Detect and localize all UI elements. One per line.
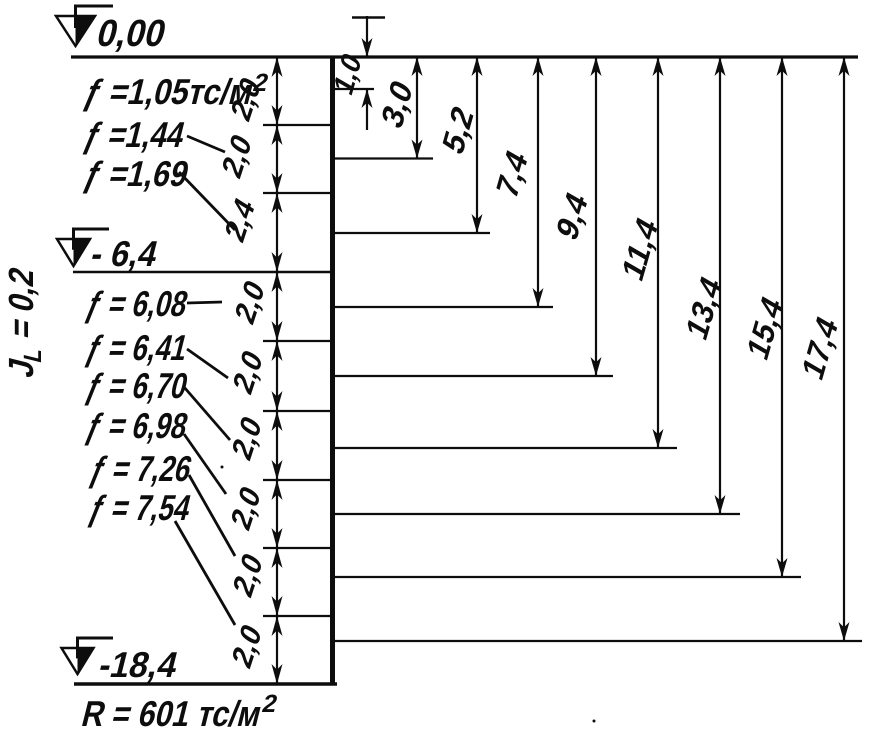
svg-text:R = 601 тс/м: R = 601 тс/м [78,694,266,734]
dimension label 7,4 [490,144,534,205]
svg-text:-18,4: -18,4 [95,645,183,685]
dimension label 15,4 [741,290,789,366]
dimension 9,4 line with arrows [591,57,602,376]
label ƒ = 6,98 [82,406,192,446]
dimension label 5,2 [436,100,480,161]
label ƒ = 7,54 [85,488,196,528]
leader line f=6,41 [187,349,228,378]
dimension label 9,4 [550,186,594,247]
dimension 17,4 line with arrows [839,57,850,641]
layer tick 3 [263,340,335,342]
layer tick 5 [263,479,335,481]
dimension 11,4 line with arrows [653,57,664,448]
layer tick 4 [263,410,335,412]
dimension label 13,4 [680,270,728,346]
dimension 11,4 terminator tick [333,447,677,449]
label ƒ = 6,41 [82,328,192,368]
chain label 2,0 #9 [226,618,268,674]
label ƒ =1,44 [80,115,190,155]
label ƒ = 7,26 [86,449,196,489]
dimension 1,0 lines and arrows [352,16,385,130]
chain label 2,0 #5 [227,344,269,400]
chain label 2,0 #2 [216,128,258,184]
label R = 601 тс/м2 [78,690,280,734]
svg-text:ƒ = 6,41: ƒ = 6,41 [82,328,192,368]
pile bottom line -18,4 [74,682,337,686]
elevation text 0,00 [93,13,171,55]
dimension 5,2 terminator tick [333,232,490,234]
svg-text:ƒ =1,44: ƒ =1,44 [80,115,190,155]
layer tick 2 [263,192,335,194]
svg-text:ƒ = 7,26: ƒ = 7,26 [86,449,196,489]
leader line f=6,98 [184,434,226,494]
dimension 13,4 line with arrows [715,57,726,514]
dimension label 3,0 [375,74,419,135]
dimension 15,4 terminator tick [333,576,801,578]
svg-text:ƒ = 6,08: ƒ = 6,08 [82,284,192,324]
elevation mark 0,00 [56,6,113,46]
dimension 13,4 terminator tick [333,513,740,515]
leader line f=1,44 [187,136,225,152]
dimension 17,4 terminator tick [333,640,862,642]
speck dots [221,466,596,723]
svg-text:0,00: 0,00 [93,13,171,55]
chain label 2,0 #4 [229,274,271,330]
chain label 2,0 #1 [225,71,267,127]
leader line f=6,70 [184,387,230,440]
dimension 3,0 line with arrows [412,57,423,159]
layer tick 1 [263,124,335,126]
leader line f=7,54 [175,521,235,625]
ground line 0,00 [71,55,858,58]
dimension 15,4 line with arrows [777,57,788,577]
soil boundary line -6,4 [73,271,335,274]
chain dimension line [276,57,278,684]
leader line f=1,69 [179,172,235,230]
dimension 7,4 line with arrows [533,57,544,307]
dimension 3,0 terminator tick [333,157,433,159]
leader line f=6,08 [187,302,222,303]
dimension 9,4 terminator tick [333,375,613,377]
dimension label 11,4 [616,211,664,287]
svg-text:ƒ =1,05тс/м: ƒ =1,05тс/м [80,72,258,112]
chain label 2,4 #3 [219,192,261,248]
label ƒ =1,69 [80,154,193,194]
svg-text:ƒ = 6,98: ƒ = 6,98 [82,406,192,446]
layer tick 6 [263,547,335,549]
svg-text:ƒ =1,69: ƒ =1,69 [80,154,193,194]
dimension label 17,4 [796,310,844,386]
dimension 7,4 terminator tick [333,306,553,308]
dimension label 1,0 [328,47,367,100]
dimension 1,0 terminator tick [333,88,374,90]
label JL = 0,2 [1,263,46,382]
svg-text:- 6,4: - 6,4 [87,234,163,274]
chain label 2,0 #8 [227,547,269,603]
chain label 2,0 #7 [225,480,267,536]
svg-text:ƒ = 7,54: ƒ = 7,54 [85,488,196,528]
layer tick 7 [263,615,335,617]
pile shaft [330,57,335,684]
label ƒ = 6,70 [82,366,192,406]
dimension 5,2 line with arrows [472,57,483,233]
elevation text -18,4 [95,645,183,685]
elevation text -6,4 [87,234,163,274]
chain label 2,0 #6 [226,410,268,466]
label ƒ = 6,08 [82,284,192,324]
elevation mark -18,4 [62,638,114,674]
label ƒ =1,05тс/м [80,69,271,112]
chain dimension arrows [272,57,283,684]
svg-text:ƒ = 6,70: ƒ = 6,70 [82,366,192,406]
leader line f=7,26 [189,475,235,556]
svg-text:JL = 0,2: JL = 0,2 [1,263,46,382]
elevation mark -6,4 [57,229,109,266]
